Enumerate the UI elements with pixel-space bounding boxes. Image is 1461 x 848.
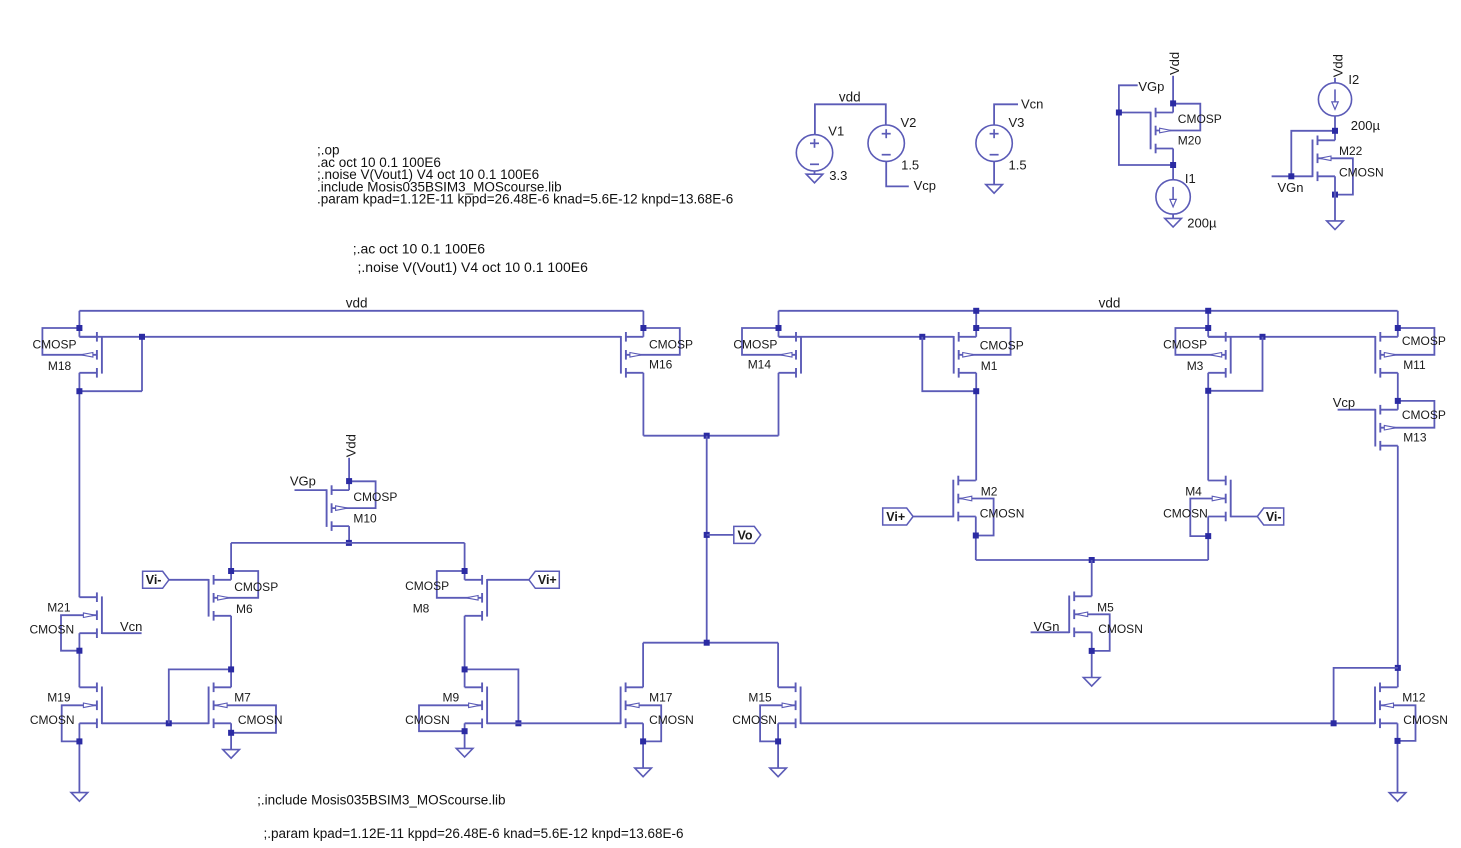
wire I1 to ground (1172, 214, 1174, 218)
wire output node horizontal (643, 435, 778, 437)
svg-text:vdd: vdd (346, 295, 368, 310)
svg-text:Vcn: Vcn (120, 619, 142, 634)
svg-text:CMOSP: CMOSP (405, 579, 449, 593)
svg-text:V3: V3 (1009, 115, 1025, 130)
svg-text:V1: V1 (828, 124, 844, 139)
ground M15 (770, 768, 787, 777)
wire M18 drain to M21 (78, 373, 80, 597)
junction M11 bulk (1395, 325, 1401, 331)
wire output vertical (706, 436, 708, 643)
wire gate M15-M12 long (801, 722, 1375, 724)
svg-text:M15: M15 (748, 691, 772, 705)
wire M13 drain to M12 (1397, 446, 1399, 688)
junction M3 bulk (1205, 325, 1211, 331)
svg-text:Vcp: Vcp (1333, 395, 1355, 410)
svg-text:Vi-: Vi- (1266, 510, 1282, 524)
wire M20 gate (1119, 112, 1151, 114)
junction M10 bulk (346, 478, 352, 484)
svg-text:200µ: 200µ (1187, 216, 1217, 231)
wire M2 source drop (975, 517, 977, 561)
wire M21 gate / Vcn (102, 632, 142, 634)
junction M5 source (1089, 648, 1095, 654)
svg-text:M7: M7 (234, 691, 251, 705)
ground V3 (986, 185, 1003, 194)
transistor M1 (CMOSP) (954, 328, 1011, 378)
transistor M4 (CMOSN) (1190, 476, 1230, 536)
svg-text:;.ac oct 10 0.1 100E6: ;.ac oct 10 0.1 100E6 (353, 241, 486, 257)
svg-text:I1: I1 (1185, 171, 1196, 186)
junction M2 source (973, 533, 979, 539)
wire M8 drain drop (464, 616, 466, 670)
ground M19 (71, 793, 88, 802)
wire M18 drain link (79, 390, 142, 392)
svg-text:Vo: Vo (738, 528, 753, 542)
svg-text:Vi+: Vi+ (538, 573, 557, 587)
svg-text:M1: M1 (981, 359, 998, 373)
port flag Vi+ (M2) (883, 508, 913, 525)
svg-text:CMOSN: CMOSN (30, 713, 75, 727)
wire V2 minus to Vcp (886, 161, 909, 186)
ground M7 (223, 750, 240, 759)
wire M10 drain drop (348, 526, 350, 543)
port flag Vi- (M6) (143, 571, 169, 588)
junction M10 drain / rail (346, 540, 352, 546)
svg-text:CMOSP: CMOSP (1402, 408, 1446, 422)
wire M7 diode link (169, 669, 231, 723)
wire M19 source to ground (78, 723, 80, 792)
wire M18 diode drop (141, 337, 143, 391)
junction M12 gate (1331, 720, 1337, 726)
svg-text:VGp: VGp (1138, 79, 1164, 94)
junction M9 gate (515, 720, 521, 726)
junction M6 bulk (228, 568, 234, 574)
wire M9 drain riser (464, 669, 466, 687)
wire M4 gate to Vi- (1231, 516, 1258, 518)
svg-text:CMOSP: CMOSP (649, 338, 693, 352)
junction M21 source (76, 648, 82, 654)
wire to Vo flag (707, 534, 734, 536)
wire M21 source to M19 (78, 633, 80, 687)
wire M18 source riser (78, 311, 80, 337)
svg-text:M10: M10 (353, 511, 377, 525)
svg-text:CMOSP: CMOSP (1178, 112, 1222, 126)
wire tail to M5 drain (1091, 560, 1093, 596)
wire M11 drain to M13 (1397, 373, 1399, 410)
junction M20 bulk (1170, 100, 1176, 106)
svg-text:1.5: 1.5 (901, 157, 919, 172)
transistor M6 (CMOSP) (209, 571, 259, 621)
transistor M13 (CMOSP) (1375, 401, 1434, 451)
wire gate rail M18-M16 (79, 336, 621, 338)
wire M6 source riser (230, 543, 232, 580)
svg-text:Vcn: Vcn (1021, 97, 1043, 112)
junction M9 source (462, 728, 468, 734)
spice directive text block 1 (317, 143, 733, 207)
port flag Vi- (M4) (1257, 508, 1283, 525)
transistor M7 (CMOSN) (209, 683, 276, 733)
transistor M16 (CMOSP) (621, 328, 680, 378)
svg-text:vdd: vdd (839, 89, 861, 104)
transistor M22 (CMOSN) (1313, 136, 1353, 195)
transistor M12 (CMOSN) (1375, 683, 1416, 741)
svg-text:M11: M11 (1403, 358, 1426, 372)
svg-text:M5: M5 (1097, 600, 1114, 614)
wire VGn to M5 gate (1031, 631, 1070, 633)
svg-text:Vdd: Vdd (1331, 54, 1346, 77)
transistor M5 (CMOSN) (1069, 592, 1110, 651)
svg-text:CMOSN: CMOSN (30, 623, 75, 637)
ground M9 (456, 748, 473, 757)
junction M4 source (1205, 533, 1211, 539)
svg-text:CMOSN: CMOSN (1339, 166, 1384, 180)
svg-text:Vi+: Vi+ (886, 510, 905, 524)
wire M14 drain drop (778, 373, 780, 436)
wire M9 source to ground (464, 723, 466, 748)
junction output to mirrors (704, 640, 710, 646)
junction M12 source (1395, 738, 1401, 744)
ground M17 (635, 768, 652, 777)
wire M7 drain riser (230, 669, 232, 687)
junction M16 bulk (640, 325, 646, 331)
svg-text:M22: M22 (1339, 144, 1363, 158)
port flag Vo (734, 526, 761, 543)
ground M5 (1083, 678, 1100, 687)
wire Vi- to M6 gate (169, 579, 209, 581)
svg-text:CMOSN: CMOSN (1098, 622, 1143, 636)
junction M19 source (76, 738, 82, 744)
svg-text:VGn: VGn (1034, 619, 1060, 634)
transistor M18 (CMOSP) (42, 328, 102, 378)
svg-text:M14: M14 (748, 358, 772, 372)
svg-text:M13: M13 (1403, 431, 1427, 445)
svg-text:VGn: VGn (1278, 180, 1304, 195)
wire M14 source riser (778, 311, 780, 337)
svg-text:V2: V2 (901, 115, 917, 130)
transistor M8 (CMOSP) (437, 571, 487, 621)
wire M12 diode link (1334, 668, 1398, 723)
ground V1 (806, 174, 823, 183)
wire M8 source riser (464, 543, 466, 580)
junction M18 bulk (76, 325, 82, 331)
svg-text:CMOSN: CMOSN (238, 713, 283, 727)
ground M12 (1389, 793, 1406, 802)
svg-text:M8: M8 (413, 602, 430, 616)
wire M17-M15 drain link (643, 642, 778, 644)
svg-text:M19: M19 (47, 691, 71, 705)
svg-text:CMOSP: CMOSP (1402, 334, 1446, 348)
wire I2 to M22 drain (1334, 116, 1336, 140)
junction M15 source (775, 738, 781, 744)
transistor M3 (CMOSP) (1175, 328, 1230, 378)
wire Vdd to M20 source (1172, 76, 1174, 113)
svg-text:CMOSN: CMOSN (649, 713, 694, 727)
transistor M14 (CMOSP) (742, 328, 801, 378)
svg-text:200µ: 200µ (1351, 118, 1381, 133)
wire M9 diode link (465, 669, 519, 723)
svg-text:;.noise V(Vout1) V4 oct 10 0.1: ;.noise V(Vout1) V4 oct 10 0.1 100E6 (358, 259, 589, 275)
svg-text:CMOSP: CMOSP (733, 338, 777, 352)
svg-text:CMOSP: CMOSP (353, 490, 397, 504)
wire vdd rail right (779, 310, 1398, 312)
port flag Vi+ (M8) (529, 571, 559, 588)
wire M22 source to ground (1334, 176, 1336, 221)
wire vdd rail left (79, 310, 643, 312)
svg-text:vdd: vdd (1099, 295, 1121, 310)
junction M17 source (640, 738, 646, 744)
svg-text:VGp: VGp (290, 473, 316, 488)
svg-text:;.include Mosis035BSIM3_MOScou: ;.include Mosis035BSIM3_MOScourse.lib (257, 793, 505, 808)
svg-text:1.5: 1.5 (1009, 157, 1027, 172)
junction Vo tap (704, 532, 710, 538)
svg-text:;.param kpad=1.12E-11 kppd=26.: ;.param kpad=1.12E-11 kppd=26.48E-6 knad… (264, 826, 684, 841)
junction M19 gate (166, 720, 172, 726)
svg-text:CMOSP: CMOSP (980, 339, 1024, 353)
junction output node (704, 433, 710, 439)
junction M12 drain tap (1395, 665, 1401, 671)
wire M3 source riser (1207, 311, 1209, 337)
wire VGp stub (1119, 85, 1138, 112)
junction M22 source (1332, 192, 1338, 198)
wire M7 source to ground (230, 723, 232, 749)
svg-text:M4: M4 (1185, 484, 1202, 498)
svg-text:3.3: 3.3 (829, 168, 847, 183)
svg-text:M3: M3 (1187, 359, 1204, 373)
wire M16 drain drop (642, 373, 644, 436)
wire Vcp to M13 gate (1338, 409, 1376, 411)
junction M20 drain (1170, 162, 1176, 168)
ground I1 (1165, 218, 1182, 227)
wire M3 diode link (1208, 337, 1262, 391)
svg-text:M16: M16 (649, 358, 673, 372)
wire Vdd to M10 source (348, 458, 350, 490)
wire M6-M10-M8 rail (231, 542, 465, 544)
spice comment text block 3 (bottom) (257, 793, 683, 842)
transistor M11 (CMOSP) (1375, 328, 1434, 378)
wire M15 source to ground (777, 723, 779, 768)
svg-text:M2: M2 (981, 484, 998, 498)
transistor M2 (CMOSN) (953, 476, 993, 536)
svg-text:M21: M21 (47, 601, 71, 615)
transistor M10 (CMOSP) (327, 481, 376, 531)
wire gate rail M14-M1 (779, 336, 954, 338)
wire M22 drain to gate (1291, 131, 1335, 177)
svg-text:CMOSP: CMOSP (1163, 338, 1207, 352)
current source I2 (1318, 83, 1351, 116)
junction M3 gate tap (1260, 334, 1266, 340)
svg-text:CMOSP: CMOSP (234, 580, 278, 594)
wire vdd V1-V2 (815, 104, 886, 134)
svg-text:I2: I2 (1348, 72, 1359, 87)
junction M7 source (228, 730, 234, 736)
junction VGp node (1116, 110, 1122, 116)
transistor M19 (CMOSN) (62, 683, 102, 742)
wire M4 source drop (1207, 517, 1209, 561)
svg-text:M6: M6 (236, 602, 253, 616)
svg-text:CMOSN: CMOSN (1403, 713, 1448, 727)
junction M14 gate tap (919, 334, 925, 340)
wire M17 source to ground (642, 723, 644, 768)
wire tail node (976, 559, 1208, 561)
svg-text:Vi-: Vi- (146, 573, 162, 587)
wire VGp to M10 gate (295, 489, 327, 491)
junction M3 vdd (1205, 308, 1211, 314)
svg-text:Vcp: Vcp (914, 178, 936, 193)
current source I1 (1156, 180, 1190, 214)
junction M1 vdd (973, 308, 979, 314)
transistor M17 (CMOSN) (621, 683, 662, 742)
wire M20 gate to drain (1119, 113, 1173, 166)
junction M18 gate-drain (139, 334, 145, 340)
transistor M9 (CMOSN) (419, 683, 487, 732)
wire M5 source to ground (1091, 632, 1093, 677)
wire gate M19-M7 (102, 722, 209, 724)
junction I2-M22 (1332, 128, 1338, 134)
svg-text:Vdd: Vdd (1167, 52, 1182, 75)
voltage source V3 (976, 125, 1012, 161)
svg-text:M20: M20 (1178, 134, 1202, 148)
svg-text:M17: M17 (649, 691, 673, 705)
wire M3 drain to M4 (1207, 373, 1209, 481)
wire M22 gate / VGn (1272, 175, 1313, 177)
wire Vi+ to M2 gate (913, 516, 953, 518)
wire M16 source riser (642, 311, 644, 337)
junction M1 drain (973, 388, 979, 394)
svg-text:M18: M18 (48, 359, 72, 373)
svg-text:.param kpad=1.12E-11 kppd=26.4: .param kpad=1.12E-11 kppd=26.48E-6 knad=… (317, 192, 733, 207)
transistor M20 (CMOSP) (1151, 104, 1201, 154)
svg-text:M9: M9 (443, 691, 460, 705)
wire gate rail M3-M11 (1208, 336, 1375, 338)
wire M8 gate to Vi+ (487, 579, 529, 581)
wire M20 drain to I1 (1172, 149, 1174, 180)
svg-text:CMOSN: CMOSN (980, 506, 1025, 520)
wire V3 to Vcn (994, 104, 1018, 125)
junction M18 drain (76, 388, 82, 394)
junction M1 bulk (973, 325, 979, 331)
transistor M15 (CMOSN) (760, 683, 801, 742)
voltage source V1 (796, 135, 832, 171)
ground M22 (1327, 221, 1344, 230)
wire M11 source riser (1397, 311, 1399, 337)
junction M3 drain (1205, 388, 1211, 394)
wire V3 to ground (993, 161, 995, 184)
svg-text:M12: M12 (1402, 691, 1426, 705)
wire Vdd to I2 (1334, 78, 1336, 83)
wire M15 drain riser (777, 643, 779, 688)
junction M13 bulk (1395, 398, 1401, 404)
wire M17 drain riser (642, 643, 644, 688)
junction M7 drain (228, 666, 234, 672)
svg-text:CMOSP: CMOSP (33, 338, 77, 352)
wire M1 drain to M2 (975, 373, 977, 481)
wire M12 source to ground (1397, 723, 1399, 792)
svg-text:CMOSN: CMOSN (732, 713, 777, 727)
voltage source V2 (868, 125, 904, 161)
junction M14 bulk (776, 325, 782, 331)
junction VGn node (1288, 173, 1294, 179)
wire gate M9-M17 (487, 722, 620, 724)
wire M1 source riser (975, 311, 977, 337)
svg-text:Vdd: Vdd (344, 434, 359, 457)
wire M6 drain drop (230, 616, 232, 670)
wire V1 to ground (814, 171, 816, 174)
junction M8 bulk (462, 568, 468, 574)
junction M9 drain (462, 666, 468, 672)
transistor M21 (CMOSN) (61, 592, 102, 650)
svg-text:CMOSN: CMOSN (405, 713, 450, 727)
wire M1 diode link (922, 337, 976, 391)
junction tail node (1089, 557, 1095, 563)
svg-text:CMOSN: CMOSN (1163, 506, 1208, 520)
spice comment text block 2 (353, 241, 588, 275)
